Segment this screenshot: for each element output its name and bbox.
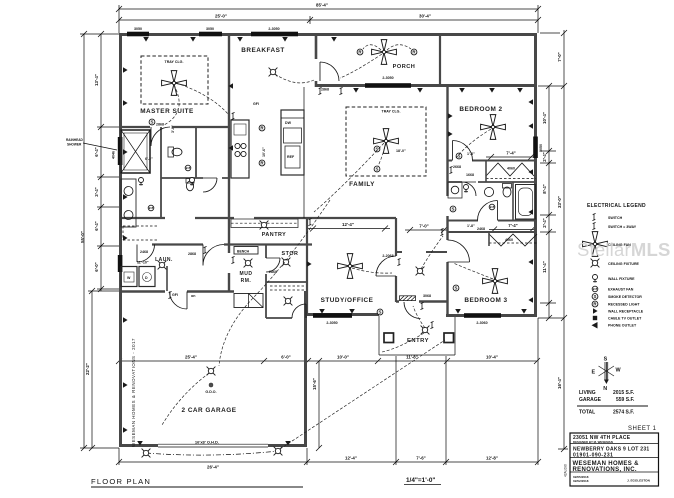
dimension line top overall 85'-4" [116,3,541,34]
svg-text:ELECTRICAL LEGEND: ELECTRICAL LEGEND [587,203,646,209]
dimension line bottom row [116,318,541,470]
svg-text:12'-4": 12'-4" [342,222,354,227]
switch symbols [168,87,452,328]
interior wall master suite bottom y=127 [119,126,229,128]
wiring curve porch to door [340,54,382,78]
window laundry left wall [118,255,123,272]
dimension line top second tier 25'-0" / 30'-4" [116,14,541,25]
svg-text:10'-4": 10'-4" [486,355,498,360]
door porch with swing [320,62,339,81]
svg-text:6'-0": 6'-0" [94,262,99,271]
svg-text:W: W [127,276,131,280]
svg-text:1/4"=1'-0": 1/4"=1'-0" [406,477,435,484]
svg-text:3068: 3068 [423,294,431,298]
wiring curve master fan to switch [164,85,179,125]
window 2-3050 family [365,83,411,88]
interior wall porch divider x=440 [439,34,441,85]
smoke detector bedroom2 [456,153,462,159]
legend exhaust fan [592,286,634,292]
svg-text:BENCH: BENCH [237,250,250,254]
svg-text:16'x8' O.H.D.: 16'x8' O.H.D. [195,440,219,445]
svg-text:2868: 2868 [188,252,196,256]
svg-text:7'-0": 7'-0" [557,52,562,61]
interior wall master bath x=161 [160,127,162,218]
interior wall garage top y=291.5 [119,290,234,292]
ceiling fan family [374,129,399,154]
svg-text:D: D [145,276,148,280]
ceiling fixture laundry [158,261,167,270]
door laundry with swing [137,245,155,263]
svg-text:2 CAR GARAGE: 2 CAR GARAGE [181,407,236,414]
interior wall y=244.5 laundry/pantry bottom [152,243,312,245]
door stor closet swing [292,304,306,318]
window 2-3050 breakfast [251,32,298,37]
svg-text:30'-4": 30'-4" [419,14,431,19]
svg-text:S: S [604,357,608,363]
svg-text:TRAY CLG.: TRAY CLG. [382,110,401,114]
svg-text:DESIGNED BY M. WESEMAN: DESIGNED BY M. WESEMAN [573,440,613,444]
sink bath2 [448,182,494,198]
interior wall bath2 bottom y=220.5 [448,220,538,222]
dimension vestibule 7'-0" [405,224,447,234]
window 3050 master right [199,32,222,37]
interior wall bath y=178 [161,177,229,179]
svg-text:StellarMLS: StellarMLS [577,239,671,260]
wiring curve entry up [413,306,425,328]
door stor with swing [266,258,280,272]
ceiling fixture drive post left [142,449,151,458]
dimension line right outer 7'-0"/33'-0"/16'-4" [538,30,568,452]
legend smoke detector [592,294,642,300]
svg-text:2668: 2668 [453,165,461,169]
ceiling fan bedroom3 [483,269,508,294]
legend phone outlet [592,322,637,329]
kitchen wall counter refrigerator dw [281,110,304,175]
svg-text:2'-4": 2'-4" [542,218,547,227]
svg-text:2468: 2468 [140,250,148,254]
title block box [570,433,659,486]
legend switch [592,213,622,220]
svg-text:1668: 1668 [466,173,474,177]
exterior wall study bottom [306,313,379,316]
smoke detector vestibule [450,206,456,212]
interior wall bath2 tub divider [512,182,514,220]
wall receptacles top wall [143,37,337,42]
ceiling fixture entry [421,326,430,335]
wall receptacles left wall [123,67,128,433]
svg-text:4060: 4060 [505,238,513,242]
washer dryer [121,267,155,287]
dimension line interior row y=361 [116,355,540,365]
dimension line left outer 55'-0" [80,31,119,451]
exterior wall left [119,33,122,447]
svg-text:1'-8": 1'-8" [467,224,475,228]
garage step landing [234,294,263,308]
legend wall receptacle [593,308,644,314]
legend ceiling fixture [591,259,640,268]
recessed light porch left [357,49,363,55]
interior wall kitchen/family thin x=304 [303,87,305,218]
ceiling fixture stor [282,258,291,267]
wiring curve breakfast [275,74,314,83]
svg-text:CABLE TV OUTLET: CABLE TV OUTLET [608,317,642,321]
legend recessed light [592,301,640,307]
wiring curve bedroom3 [453,263,493,279]
svg-text:MUD: MUD [240,271,253,277]
svg-text:TOTAL: TOTAL [579,410,595,416]
exhaust fan master wc [185,165,191,171]
svg-text:SHEET 1: SHEET 1 [628,426,657,432]
door mud-garage with swing [170,292,188,310]
svg-text:2574 S.F.: 2574 S.F. [613,410,635,416]
svg-text:4060: 4060 [507,167,515,171]
toilet master second [186,179,194,191]
interior wall study left x=307 [306,218,308,315]
window 4046 master bath left wall [118,137,123,165]
legend switch 3way [592,222,636,229]
bedroom3 closet bifold 4060 [489,232,537,246]
door hall closet with swing [203,245,224,266]
svg-text:559 S.F.: 559 S.F. [616,397,635,403]
svg-text:6'-4": 6'-4" [94,147,99,156]
svg-text:85'-4": 85'-4" [316,3,328,8]
door bedroom2 closet small [462,182,476,196]
kitchen island cooktop [231,120,249,178]
smoke detector master [149,119,155,125]
bench mud room [234,247,258,255]
svg-text:25'-0": 25'-0" [215,14,227,19]
svg-text:2-3060: 2-3060 [476,321,487,325]
svg-text:BEDROOM 3: BEDROOM 3 [464,297,507,304]
wiring curve entry fixture link [382,333,424,352]
svg-text:LAUN.: LAUN. [155,257,173,263]
svg-text:E: E [592,370,596,376]
window 3050 master left [127,32,149,37]
smoke detector bedroom3 [453,285,459,291]
svg-text:2-3050: 2-3050 [382,76,393,80]
svg-text:STOR: STOR [282,251,299,257]
svg-text:22'-2": 22'-2" [85,363,90,375]
svg-text:42AL090: 42AL090 [564,464,568,477]
exhaust fan master bath [148,205,154,211]
door bedroom3 with swing [448,240,470,262]
wall fixture master vanity right [190,178,195,186]
recessed light kitchen1 [259,125,265,131]
ceiling fan master suite [162,71,187,96]
svg-text:3'-4": 3'-4" [94,187,99,196]
svg-text:RM.: RM. [241,278,252,284]
toilet bath2 [503,184,512,198]
tray ceiling master [141,56,208,104]
dimension misc small labels [137,125,475,265]
interior wall y=218 kitchen/pantry + study top [119,217,396,219]
svg-text:7'-0": 7'-0" [419,224,428,229]
interior wall study right x=396 [395,218,397,302]
svg-text:2868: 2868 [321,88,329,92]
door bedroom2 with swing [453,141,473,161]
svg-text:WALL FIXTURE: WALL FIXTURE [608,277,635,281]
compass rose [592,357,622,393]
svg-text:11'-4": 11'-4" [542,261,547,273]
svg-text:12'-4": 12'-4" [345,456,357,461]
svg-text:PORCH: PORCH [393,64,416,70]
tray ceiling family [346,107,426,176]
svg-text:FAMILY: FAMILY [349,181,375,188]
svg-text:2-3050: 2-3050 [326,321,337,325]
svg-text:J. EGGLESTON: J. EGGLESTON [627,479,651,483]
stor closet shelf dashed [270,286,304,290]
svg-text:4046: 4046 [112,151,116,159]
svg-text:DW: DW [285,121,292,125]
entry column left [384,333,394,343]
ceiling fixture mud [244,259,253,268]
smoke detector hall2 [374,166,380,172]
legend cable tv outlet [593,316,642,321]
svg-text:EXHAUST FAN: EXHAUST FAN [608,288,634,292]
wall fixture master vanity left [139,178,144,186]
pantry shelves [231,219,298,228]
svg-text:10'-4": 10'-4" [542,112,547,124]
area table [577,390,648,416]
svg-text:FLOOR PLAN: FLOOR PLAN [91,477,151,486]
interior wall bedroom3 top y=232 [448,231,538,233]
ceiling fixture garage gdo [207,367,216,376]
wiring curve master fan to wall [176,83,228,114]
ceiling fixture pantry [260,221,269,230]
svg-text:33'-0": 33'-0" [557,196,562,208]
svg-text:02/02/2018: 02/02/2018 [573,479,589,483]
master closet shelves dashed [123,226,158,240]
svg-text:RAINHEAD: RAINHEAD [66,138,84,142]
svg-text:BEDROOM 2: BEDROOM 2 [459,106,502,113]
svg-text:GARAGE: GARAGE [579,397,602,403]
entry column right [444,333,454,343]
svg-text:2-3050: 2-3050 [268,27,279,31]
svg-text:8'-4": 8'-4" [542,184,547,193]
toilet master wc [168,147,182,157]
svg-text:SMOKE DETECTOR: SMOKE DETECTOR [608,295,642,299]
svg-text:2468: 2468 [477,227,485,231]
svg-text:7'-4": 7'-4" [508,223,517,228]
interior wall mud/stor x=266 [265,245,267,283]
garage overhead door opening lines [158,444,268,447]
dimension study 12'-4" [308,222,390,232]
wiring curve garage gdo left [162,373,209,425]
interior wall laundry nook x=167 [166,266,168,291]
recessed light porch right [411,49,417,55]
window 2-3050 study [313,313,352,318]
svg-text:6'-0": 6'-0" [281,355,290,360]
legend ceiling fan [583,232,632,257]
scale note [404,477,441,485]
svg-text:SHOWER: SHOWER [67,143,82,147]
svg-text:RECESSED LIGHT: RECESSED LIGHT [608,303,640,307]
dimension line left inner segments [94,31,119,292]
svg-text:LIVING: LIVING [579,390,596,396]
svg-text:CEILING FIXTURE: CEILING FIXTURE [608,262,640,266]
wiring curve porch left [363,45,381,50]
wiring curve bedroom2 [456,129,491,158]
svg-text:WESEMAN HOMES & RENOVATIONS: WESEMAN HOMES & RENOVATIONS - 2017 [131,338,136,447]
bedroom2 closet left wall [485,161,487,183]
wall receptacles right wall [528,99,533,303]
svg-text:SWITCH: SWITCH [608,216,623,220]
wiring curve family to smoke [378,143,386,166]
bedroom2 closet bifold 4060 [486,163,536,179]
interior wall family/hall y=252 [396,251,447,253]
svg-text:N: N [603,386,607,392]
exterior wall bedroom3 bottom [446,314,537,317]
exterior wall porch left with door gap [315,33,318,87]
svg-text:SWITCH = 3WAY: SWITCH = 3WAY [608,225,637,229]
entry front door leaf hatched [400,296,416,301]
wiring curve porch right [387,45,411,50]
svg-text:13'-4": 13'-4" [94,74,99,86]
interior wall bath2 top y=182 [448,181,537,183]
svg-text:2015 S.F.: 2015 S.F. [613,390,635,396]
legend wall fixture [593,275,636,283]
exterior wall top [119,33,537,36]
gdo small symbol [209,383,213,387]
svg-text:MASTER SUITE: MASTER SUITE [140,108,194,115]
gfi labels [172,102,259,297]
ceiling fan bedroom2 [481,115,506,140]
svg-text:on: on [191,294,195,298]
interior wall bedroom2 bottom y=160.5 [448,160,537,162]
driveway dashed edge [146,451,278,455]
wall receptacles interior walls [137,83,527,445]
vanity master [121,179,136,227]
svg-text:STUDY/OFFICE: STUDY/OFFICE [321,297,374,304]
ceiling fixture breakfast [269,68,278,77]
ceiling fixture stor closet [284,297,293,306]
wiring curve family long [314,143,384,212]
vanity bath2 small [451,186,459,194]
title floor plan [91,477,303,487]
dimension bed2 closet 7'-4" [486,151,536,161]
svg-text:16'-4": 16'-4" [557,377,562,389]
ceiling fixture drive post right [274,447,283,456]
svg-text:7'-4": 7'-4" [506,151,515,156]
wiring curve entry diagonal [280,340,445,449]
window 2-3060 bedroom3 [464,313,501,318]
svg-text:PHONE OUTLET: PHONE OUTLET [608,324,637,328]
interior wall entry y=301.5 [396,300,447,302]
door master wc swing [203,178,217,192]
door entry swing arc [404,302,421,319]
svg-text:26'-4": 26'-4" [207,465,219,470]
interior wall master/breakfast x=229 [228,33,230,291]
svg-text:15'-6": 15'-6" [312,378,317,390]
shower master with rainhead [121,130,150,173]
wiring curve study [352,268,392,273]
svg-text:BREAKFAST: BREAKFAST [241,47,285,54]
dimension line right inner segments [540,83,556,321]
exterior wall right [534,33,537,317]
dimension entry walk 15'-6" [312,358,322,451]
exterior wall porch-family / bedroom2 top [316,84,536,87]
interior wall water closet x=196 [195,127,197,178]
smoke detector family [374,146,380,152]
svg-text:ENTRY: ENTRY [407,338,429,344]
svg-text:3050: 3050 [134,27,142,31]
svg-text:2'-4": 2'-4" [542,152,547,161]
svg-text:12'-8": 12'-8" [486,456,498,461]
svg-text:GFI: GFI [253,102,259,106]
interior wall stor closet box [266,282,306,318]
exhaust fan bath2 [489,204,495,210]
dimension line left garage 22'-2" [85,288,119,451]
dimension bed3 closet 7'-4" [489,223,537,233]
svg-text:55'-0": 55'-0" [80,231,85,243]
ceiling fan study [338,254,363,279]
svg-text:GFI: GFI [172,293,178,297]
window 3050 bedroom2 right [533,137,538,159]
svg-text:TRAY CLG.: TRAY CLG. [165,60,184,64]
interior wall hall/bedrooms x=447.5 [446,87,448,316]
svg-text:25'-4": 25'-4" [185,355,197,360]
wall fixture bath2 [464,185,469,193]
wiring curve house long sweep [219,200,330,366]
ceiling fixture hall [416,267,425,276]
svg-text:2868: 2868 [269,270,277,274]
leader rainhead shower [66,138,117,150]
svg-text:10'-0": 10'-0" [337,355,349,360]
svg-text:G.D.O.: G.D.O. [205,390,216,394]
svg-text:6'-4": 6'-4" [94,221,99,230]
svg-text:REF: REF [287,155,295,159]
wiring curve hall [421,236,443,269]
smoke detector study wall [377,309,383,315]
svg-text:7'-6": 7'-6" [416,456,425,461]
door bath2 with swing [478,201,498,221]
exterior wall garage right [304,291,307,447]
svg-text:WALL RECEPTACLE: WALL RECEPTACLE [608,310,644,314]
tub bath2 [516,185,536,220]
exterior wall garage bottom with door opening [119,444,307,447]
svg-text:01901-090-231: 01901-090-231 [573,453,613,459]
entry walkway slab [379,316,455,355]
door master suite with swing [151,127,170,146]
svg-text:3050: 3050 [206,27,214,31]
ceiling fan porch [372,40,397,65]
svg-text:RENOVATIONS, INC.: RENOVATIONS, INC. [573,467,637,473]
recessed light kitchen2 [259,160,265,166]
svg-text:18'-0": 18'-0" [396,149,406,153]
svg-text:3050: 3050 [539,144,543,152]
svg-text:10'-6": 10'-6" [262,147,266,157]
door study with swing [376,256,396,276]
svg-text:PANTRY: PANTRY [262,232,287,238]
svg-text:2868: 2868 [156,123,164,127]
svg-text:2-2068: 2-2068 [382,254,393,258]
svg-text:6'-2": 6'-2" [145,157,153,161]
